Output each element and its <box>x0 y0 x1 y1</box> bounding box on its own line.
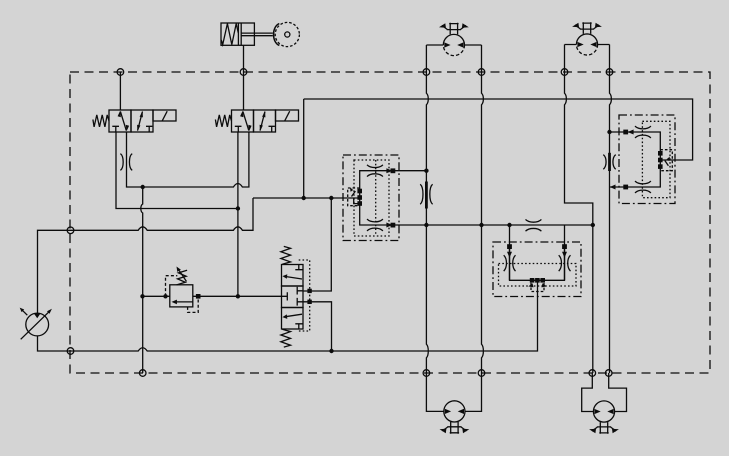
valve V1 left box blocked port T <box>112 126 119 132</box>
wire drain header y=225 F1 to M4 branch <box>394 224 593 226</box>
relief valve R1 drain dashed line <box>188 299 199 313</box>
flow control F3 outlet arrows <box>628 130 634 135</box>
wire M2 right line x=609.5 down to M4 right <box>610 45 612 374</box>
flow control F2 port squares top <box>507 244 512 249</box>
wire bypass riser x=303.7 <box>303 99 305 198</box>
valve V2 right box flow arrow <box>260 112 265 131</box>
wire branch x=142.7 down to bottom boundary port <box>141 187 143 373</box>
flow control F3 port squares right <box>658 151 663 156</box>
motor M1 shaft <box>447 23 461 35</box>
motor M3 rotation wings <box>442 427 466 431</box>
drain restrictor on y=225 header <box>526 219 542 231</box>
wire V1 port B down through restrictor, across y=187, up to V2 <box>127 132 249 187</box>
motor M1 circle <box>443 34 464 45</box>
valve V2 pilot box <box>276 110 299 121</box>
wire motor M1 left line x=426.4 top to bottom <box>426 45 428 373</box>
boundary port circles top edge <box>117 69 613 76</box>
flow control F2 inner dotted box <box>499 264 577 287</box>
motor M1 rotation wings <box>442 25 466 29</box>
flow control F2 left edge restrictor arcs <box>504 255 516 271</box>
valve V2 body boxes <box>232 110 254 132</box>
flow control F1 outer dash-dot box <box>343 155 399 241</box>
enclosure dashed boundary box <box>70 72 710 373</box>
flow control F3 solid flow path <box>627 132 661 187</box>
relief valve R1 adjust arrow <box>179 271 186 282</box>
wire V3 upper work line to pressure rail <box>303 198 331 291</box>
wire tank return rail y=351 <box>38 281 538 352</box>
motor M4 circle <box>593 401 614 422</box>
wire F3 lower tap <box>610 186 627 188</box>
motor M2 shaft <box>580 22 594 34</box>
relief valve R1 spring <box>177 270 188 285</box>
valve V3 top spring <box>281 246 291 264</box>
flow control F1 pilot dashed box <box>348 188 360 206</box>
cylinder C1 return spring <box>221 24 238 45</box>
wire V3 lower line to tank rail <box>303 302 332 351</box>
wire pressure rail y=198 to flow control F1 <box>253 197 360 199</box>
wire relief valve inlet line <box>143 295 170 297</box>
relief valve R1 pilot dashed line <box>166 276 178 297</box>
wire bypass top run y=99 with hops <box>304 99 693 160</box>
flow control F3 drain arrow at line <box>610 185 616 190</box>
flow control F2 right edge restrictor arcs <box>559 255 571 271</box>
motor M4 internal arrows <box>594 409 613 414</box>
relief valve R1 body <box>170 285 193 307</box>
flow control F2 port squares bottom <box>530 278 535 283</box>
flow control F3 pilot arrow <box>665 161 669 166</box>
valve V2 left box flow arrow <box>243 112 249 131</box>
valve V3 top box blocked port T <box>295 265 302 270</box>
motor M4 shaft <box>597 422 611 434</box>
wire relief valve outlet to valve V3 <box>193 295 282 297</box>
motor M2 rotation wings <box>575 25 599 29</box>
valve V3 body boxes <box>282 265 304 287</box>
wire port stub valve V1 top <box>119 72 121 110</box>
motor M4 bracket right <box>609 373 627 412</box>
motor M3 shaft <box>447 422 461 434</box>
flow control F3 port squares left <box>623 130 628 135</box>
relief valve R1 internal flow arrow <box>176 301 193 303</box>
valve V3 middle box right blocked ports <box>297 287 303 306</box>
flow control F1 outlet arrows <box>386 168 392 227</box>
boundary port circles left edge <box>67 227 74 354</box>
flow control F1 pilot dotted center line <box>375 160 377 236</box>
wire motor M1 right line x=481.5 <box>482 45 484 373</box>
valve V3 bottom box arrow <box>286 314 303 317</box>
valve V2 spring <box>215 115 231 127</box>
valve V1 pilot lever diagonal <box>162 111 167 121</box>
wire F1 inlet jog <box>354 198 360 204</box>
flow control F1 port squares left <box>357 189 362 194</box>
valve V3 pilot squares <box>307 289 311 293</box>
wire F1 upper tap <box>394 170 427 172</box>
motor M2 internal arrows <box>577 42 596 47</box>
valve V3 bottom spring <box>281 329 291 347</box>
wire F3 upper tap <box>610 131 627 133</box>
valve V1 pilot box <box>153 110 176 121</box>
motor M1 internal arrows <box>444 42 463 47</box>
motor M3 internal arrows <box>445 409 464 414</box>
valve V1 body boxes <box>109 110 131 132</box>
valve V3 middle box left blocked port <box>282 292 288 300</box>
motor M2 port stubs <box>565 44 610 46</box>
flow control F3 outer dash-dot box <box>619 115 675 204</box>
relief valve R1 gauge square <box>196 294 201 299</box>
valve V2 right box blocked port T <box>269 126 275 132</box>
boundary port circles bottom edge <box>139 370 612 377</box>
wire V2 port A down to relief line <box>237 132 239 296</box>
motor M4 bracket left <box>582 373 594 412</box>
pump P1 inlet flow triangle <box>34 313 41 318</box>
restrictor on V1 port B line <box>120 154 132 171</box>
flow control F2 outer dash-dot box <box>493 242 581 297</box>
cylinder C1 body <box>221 23 254 45</box>
flow control F1 bottom edge restrictor arcs <box>367 219 383 231</box>
wire pump outlet to pressure rail <box>38 198 254 313</box>
flow control F3 bottom edge restrictor arcs <box>635 181 651 193</box>
valve V1 right box flow arrow <box>138 112 143 131</box>
valve V3 pilot dotted box <box>299 260 310 331</box>
valve V3 top box arrow <box>286 277 303 280</box>
wire V1 port A down and across y=208.5 <box>116 132 238 209</box>
motor M3 circle <box>444 401 465 422</box>
pump P1 circle <box>26 313 49 336</box>
wire cylinder to valve V2 <box>243 45 245 110</box>
cylinder C1 rod <box>241 33 273 36</box>
valve V3 bottom box blocked port T <box>295 324 302 329</box>
flow control F2 pilot arrows <box>528 283 546 287</box>
motor M4 rotation wings <box>592 427 616 431</box>
flow control F3 top edge restrictor arcs <box>635 126 651 138</box>
flow control F2 inlet arrows <box>507 252 567 258</box>
motor M3 bracket <box>426 373 481 411</box>
node junction dots <box>140 130 611 353</box>
motor M1 port stubs <box>426 44 481 46</box>
cylinder C1 piston <box>238 23 241 45</box>
restrictor on M1 left line <box>425 182 428 209</box>
cylinder C1 roller wheel <box>275 22 299 46</box>
motor M2 circle <box>576 34 597 45</box>
flow control F1 top edge restrictor arcs <box>367 165 383 177</box>
valve V1 left box flow arrow <box>120 112 126 131</box>
valve V2 left box blocked port T <box>235 126 242 132</box>
valve V1 right box blocked port T <box>146 126 152 132</box>
flow control F1 inner dotted box <box>354 160 389 236</box>
cylinder C1 roller fork <box>274 24 280 46</box>
wire M2 left line with offset to M4 left <box>565 45 593 374</box>
flow control F1 solid flow path <box>360 171 394 225</box>
pump P1 drive arrow <box>22 310 27 315</box>
valve V1 spring <box>93 115 109 127</box>
valve V2 pilot lever diagonal <box>285 111 290 121</box>
flow control F1 port squares right <box>391 168 396 173</box>
cylinder C1 roller hub <box>285 32 290 37</box>
flow control F3 inner dotted box <box>642 121 670 197</box>
flow control F2 pilot dashed marks <box>531 283 544 292</box>
flow control F3 pilot dashed box <box>660 150 672 171</box>
wire F2 right riser <box>564 225 566 280</box>
pump P1 variable displacement arrow <box>21 311 50 339</box>
restrictor on M2 right line <box>608 153 611 171</box>
wire F2 left riser <box>509 225 511 280</box>
flow control F2 solid flow path <box>510 249 565 281</box>
flow control F1 pilot arrow <box>352 191 356 196</box>
